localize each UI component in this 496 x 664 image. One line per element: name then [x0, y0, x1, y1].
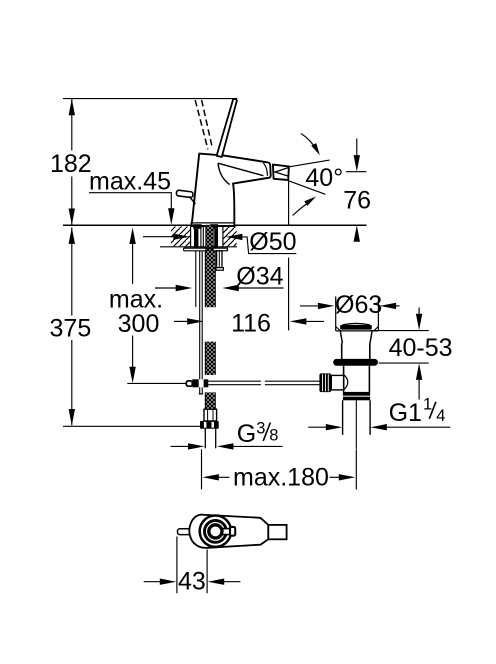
rod clamp block — [192, 379, 208, 387]
faucet body outline — [192, 154, 271, 226]
lever handle solid — [217, 99, 237, 157]
shank wall left black — [193, 224, 201, 248]
svg-text:375: 375 — [50, 314, 92, 342]
svg-text:300: 300 — [118, 310, 160, 338]
40 degree angle upper line — [289, 160, 329, 167]
spout tip extension line — [288, 182, 290, 331]
wire bottom reference line y=426 — [63, 425, 200, 427]
rod end fitting — [186, 381, 192, 386]
second hose stub fitting — [216, 251, 223, 270]
dimension 40-53 reference lines — [371, 331, 429, 364]
label G3/8 — [237, 419, 279, 448]
waste coupling bands — [343, 392, 370, 400]
hose end collar — [204, 409, 217, 421]
waste cup wall left — [335, 297, 337, 331]
dimension 76 — [346, 139, 367, 242]
faucet spout inner line — [218, 163, 263, 176]
pull wire to clamp — [127, 382, 186, 384]
svg-text:182: 182 — [50, 150, 92, 178]
top view end block — [268, 525, 286, 539]
pop-up rod vertical — [199, 251, 203, 394]
top view body outline — [189, 515, 268, 548]
dimension 40-53 arrows — [416, 308, 422, 400]
waste cup chamfer right — [374, 327, 379, 331]
wire top reference line y=98.5 — [63, 98, 237, 100]
svg-text:43: 43 — [178, 567, 206, 595]
svg-text:116: 116 — [231, 310, 271, 338]
waste cup chamfer left — [336, 327, 341, 331]
top view inner ring — [209, 525, 222, 538]
knob connector — [331, 375, 343, 390]
svg-text:Ø50: Ø50 — [249, 228, 296, 256]
ball joint arc — [344, 375, 348, 391]
waste flange — [333, 359, 378, 366]
svg-text:8: 8 — [269, 426, 278, 444]
waste cup wall right — [377, 297, 379, 331]
supply hose segment B — [205, 342, 215, 375]
dimension max.180 — [202, 449, 357, 489]
svg-text:Ø63: Ø63 — [335, 291, 382, 319]
dimension diameter 50 — [143, 234, 296, 254]
knurled adjuster knob — [319, 373, 331, 392]
mounting plate — [184, 247, 228, 251]
hose connection nut — [200, 421, 219, 429]
faucet body inner curve — [218, 163, 230, 184]
supply hose segment A — [205, 251, 215, 307]
deck hatch left block — [160, 227, 237, 247]
deck hole edge left — [190, 225, 192, 246]
top view left knob — [178, 529, 193, 535]
waste tailpipe — [343, 400, 371, 435]
40 degree lower arc arrow — [293, 197, 316, 216]
temperature side lever — [176, 190, 193, 198]
spray control knob at spout tip — [273, 165, 289, 180]
svg-text:G1: G1 — [389, 399, 422, 427]
escutcheon skirt line — [195, 251, 197, 307]
G3/8 connection tube — [205, 429, 215, 449]
waste lower body — [344, 366, 370, 392]
dimension max.300 vertical line — [129, 228, 135, 384]
dimension diameter 34 — [155, 285, 284, 291]
side lever link line — [189, 197, 195, 204]
waste center line — [355, 400, 357, 449]
top view lever bar — [216, 527, 235, 536]
40 degree upper arc arrow — [301, 134, 320, 156]
svg-text:max.180: max.180 — [233, 463, 329, 491]
40 degree angle lower line — [288, 181, 326, 195]
deck hole edge right — [222, 225, 224, 246]
svg-text:Ø34: Ø34 — [236, 262, 283, 290]
svg-text:40-53: 40-53 — [389, 334, 453, 362]
supply hose segment C — [205, 392, 215, 409]
dimension diameter 63 — [300, 303, 400, 309]
lever handle alternate position dashed — [195, 100, 208, 149]
svg-text:1: 1 — [423, 396, 432, 414]
faucet spout tip inner curve — [263, 163, 267, 176]
threaded shank crosshatch — [206, 225, 213, 251]
dimension 375 vertical line — [69, 227, 75, 425]
deck hatch right block — [223, 227, 237, 247]
dimension 116 — [174, 318, 324, 324]
dimension G3/8 — [171, 443, 283, 449]
waste cup rim — [336, 330, 379, 332]
svg-text:4: 4 — [436, 407, 445, 425]
waste neck cone — [340, 332, 372, 344]
dimension 43 — [144, 537, 241, 594]
pop-up rod upper pair — [200, 225, 202, 248]
svg-text:max.45: max.45 — [89, 167, 171, 195]
faucet base edge line — [190, 222, 233, 224]
svg-text:40°: 40° — [305, 164, 343, 192]
deck top line — [63, 224, 367, 226]
label max.45 with leader — [89, 167, 175, 224]
shank wall right black — [210, 224, 218, 248]
svg-text:G: G — [237, 420, 256, 448]
svg-text:76: 76 — [343, 186, 371, 214]
top view middle ring — [205, 521, 227, 543]
top view outer ring — [200, 516, 231, 547]
svg-text:3: 3 — [256, 419, 265, 437]
dimension G1 1/4 — [308, 424, 450, 430]
label G1 1/4 — [389, 396, 446, 427]
waste upper body — [342, 343, 370, 359]
waste plug cap — [340, 323, 372, 329]
dimension 182 vertical line — [69, 99, 75, 225]
horizontal pop-up linkage rod — [208, 381, 319, 385]
